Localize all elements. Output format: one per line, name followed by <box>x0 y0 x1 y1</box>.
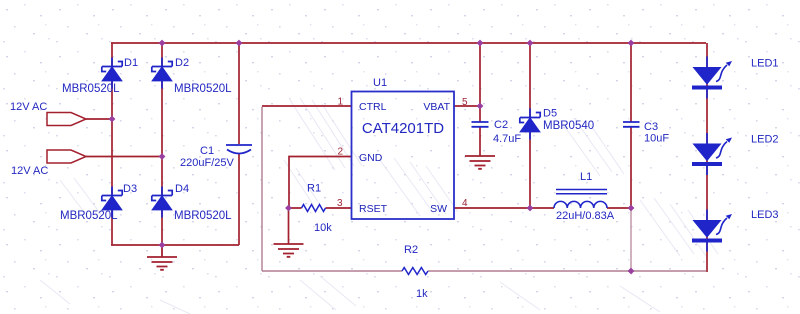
node dot top rail at C3 branch <box>628 40 635 47</box>
svg-text:D1: D1 <box>124 57 138 69</box>
svg-text:D3: D3 <box>123 183 137 195</box>
svg-text:LED3: LED3 <box>751 209 779 221</box>
node dot top rail at C2 branch <box>477 40 484 47</box>
wire: AC input 1 to bridge <box>86 118 112 120</box>
svg-text:220uF/25V: 220uF/25V <box>180 157 234 169</box>
node dot SW/D5 junction <box>527 205 534 212</box>
svg-text:10uF: 10uF <box>644 133 669 145</box>
svg-text:12V AC: 12V AC <box>11 165 48 177</box>
svg-text:22uH/0.83A: 22uH/0.83A <box>556 210 615 222</box>
node dot AC2 junction <box>159 153 166 160</box>
capacitor C3 <box>623 122 640 127</box>
svg-text:5: 5 <box>462 97 468 108</box>
svg-text:4: 4 <box>462 198 468 209</box>
wire: feedback bottom run <box>262 270 707 272</box>
svg-text:CAT4201TD: CAT4201TD <box>362 120 444 137</box>
diode D5 <box>520 109 540 140</box>
svg-text:1: 1 <box>337 97 343 108</box>
LED1 <box>692 57 732 99</box>
wire: bridge bottom rail <box>111 244 239 246</box>
wire: C1 branch lower <box>238 153 240 245</box>
capacitor C1 (polarized) <box>226 145 252 154</box>
svg-text:1k: 1k <box>416 288 428 300</box>
wire: feedback left vertical (thin) <box>261 107 263 271</box>
connector J2 12V AC bottom <box>47 150 86 163</box>
wire: C1 branch upper <box>238 43 240 144</box>
svg-text:GND: GND <box>359 152 383 164</box>
svg-text:MBR0540: MBR0540 <box>543 120 594 132</box>
watermark streaks <box>40 98 718 314</box>
svg-text:D2: D2 <box>175 57 189 69</box>
svg-text:2: 2 <box>337 147 343 158</box>
node dot AC1 junction <box>109 116 116 123</box>
svg-text:R1: R1 <box>307 183 321 195</box>
svg-text:D5: D5 <box>543 108 557 120</box>
wire: RSET pin 3 segments <box>289 207 352 209</box>
wire: D5 branch <box>529 43 531 208</box>
ground (bridge) <box>147 245 177 270</box>
node dot top rail at C1 branch <box>236 40 243 47</box>
connector J1 12V AC top <box>47 113 86 126</box>
svg-text:RSET: RSET <box>359 203 388 215</box>
node dot bridge ground junction <box>159 242 166 249</box>
svg-text:MBR0520L: MBR0520L <box>62 83 120 95</box>
svg-text:C3: C3 <box>644 121 658 133</box>
node dot RSET/R1 junction <box>285 205 292 212</box>
svg-text:3: 3 <box>337 198 343 209</box>
svg-text:MBR0520L: MBR0520L <box>174 83 232 95</box>
wire: LED string vertical <box>706 43 708 272</box>
svg-text:LED2: LED2 <box>751 134 779 146</box>
svg-text:C1: C1 <box>200 145 214 157</box>
diode D3 <box>102 187 122 218</box>
svg-text:MBR0520L: MBR0520L <box>174 210 232 222</box>
op IC U1 box <box>352 92 455 220</box>
LED3 <box>692 210 732 252</box>
wire: R1 ground stem <box>288 208 290 244</box>
svg-text:L1: L1 <box>580 171 592 183</box>
node dot top rail at D2 branch <box>159 40 166 47</box>
svg-text:VBAT: VBAT <box>423 101 450 113</box>
svg-text:4.7uF: 4.7uF <box>493 133 521 145</box>
svg-text:CTRL: CTRL <box>359 101 387 113</box>
svg-text:10k: 10k <box>314 222 332 234</box>
svg-text:LED1: LED1 <box>751 58 779 70</box>
wire: VBAT pin 5 <box>454 105 480 107</box>
diode D1 <box>102 58 122 89</box>
wire: SW pin 4 to inductor <box>454 207 631 209</box>
ground (R1) <box>274 244 304 257</box>
wire: left bridge vertical (D1/D3 branch) <box>111 43 113 245</box>
wire: top rail <box>111 42 706 44</box>
wire: C2 branch <box>479 43 481 156</box>
wire: GND pin 2 <box>289 157 352 209</box>
LED2 <box>692 133 732 175</box>
svg-text:C2: C2 <box>494 119 508 131</box>
svg-text:R2: R2 <box>404 244 418 256</box>
capacitor C2 <box>472 122 489 127</box>
svg-text:D4: D4 <box>175 183 189 195</box>
node dot VBAT/C2 junction <box>477 103 484 110</box>
inductor L1 <box>554 190 607 209</box>
wire: second bridge vertical (D2/D4 branch) <box>161 43 163 245</box>
node dot L1/C3 junction <box>628 205 635 212</box>
resistor R2 <box>402 268 428 275</box>
wire: AC input 2 to bridge <box>86 156 162 158</box>
node dot feedback bottom junction <box>628 268 635 275</box>
wire: C3 output drop (thin) <box>630 208 632 271</box>
ground (C2) <box>465 156 495 169</box>
diode D2 <box>152 58 172 89</box>
svg-text:12V AC: 12V AC <box>10 101 47 113</box>
svg-text:SW: SW <box>430 203 447 215</box>
wire: C3 branch <box>630 43 632 208</box>
resistor R1 <box>302 205 326 212</box>
svg-text:U1: U1 <box>373 77 387 89</box>
node dot top rail at D5 branch <box>527 40 534 47</box>
diode D4 <box>152 187 172 218</box>
wire: CTRL pin 1 <box>262 105 352 107</box>
svg-text:MBR0520L: MBR0520L <box>60 210 118 222</box>
